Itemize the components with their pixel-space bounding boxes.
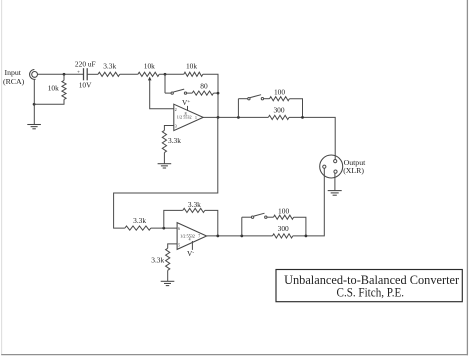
svg-text:100: 100 <box>278 206 289 215</box>
node: top feedback junction <box>164 73 167 76</box>
connector J2 XLR output <box>320 155 343 178</box>
svg-text:10k: 10k <box>186 61 197 70</box>
svg-text:(XLR): (XLR) <box>343 166 364 175</box>
switch SW1 <box>165 89 192 94</box>
VR1 wiper arrow <box>148 77 152 81</box>
resistor R9 3.3k (inverter input) <box>125 226 151 230</box>
wire: C1 to R2 <box>87 73 98 75</box>
wire: RCA sleeve down to ground <box>33 79 35 124</box>
svg-text:300: 300 <box>273 105 284 114</box>
resistor R8 300 (upper series) <box>268 115 289 119</box>
wire: U1 pin3 to R6 <box>164 126 173 131</box>
svg-text:10k: 10k <box>48 84 59 93</box>
op-amp U2 (1/2 5532) <box>177 223 207 250</box>
node: upper net left <box>237 116 240 119</box>
node: input junction <box>63 73 66 76</box>
capacitor C1 220uF <box>84 68 88 80</box>
ground (input) <box>27 125 41 129</box>
potentiometer VR1 10k <box>138 72 159 76</box>
wire: R13 to XLR pin3 <box>293 168 325 236</box>
svg-text:10k: 10k <box>144 61 155 70</box>
wire: R11 to ground <box>167 270 169 281</box>
ground (U1 R6) <box>158 164 172 168</box>
svg-text:2: 2 <box>175 108 177 112</box>
title block <box>276 270 462 302</box>
resistor R2 3.3k (series) <box>98 72 120 76</box>
resistor R6 3.3k (U1 + input to gnd) <box>162 130 166 152</box>
wire: R4 right down to output node <box>203 74 218 117</box>
svg-text:300: 300 <box>278 224 289 233</box>
node: upper net right <box>301 116 304 119</box>
svg-text:1/2 5532: 1/2 5532 <box>180 234 195 239</box>
node: sleeve junction <box>33 103 36 106</box>
V+ supply label U1 <box>187 106 189 111</box>
wire: up to SW3 <box>241 217 243 236</box>
switch SW2 <box>238 95 269 100</box>
svg-text:V+: V+ <box>182 98 190 107</box>
resistor R12 100 (lower switched) <box>273 215 293 219</box>
node: U2 output <box>216 235 219 238</box>
wire: U1 out down/left to R9 <box>114 117 218 228</box>
wire: junction down to SW1 <box>164 74 166 93</box>
wire: R7 to right vertical <box>289 99 302 118</box>
svg-text:3.3k: 3.3k <box>168 136 181 145</box>
V- supply label U2 <box>191 241 193 250</box>
wire: R10 down to U2 output <box>205 210 218 236</box>
wire: R6 to ground <box>163 153 165 164</box>
resistor R1 10k (input shunt) <box>62 80 66 99</box>
svg-text:+: + <box>77 69 80 75</box>
resistor R10 3.3k (U2 feedback) <box>164 210 183 228</box>
svg-text:8: 8 <box>185 112 187 116</box>
wire: R9 to U2 pin6 <box>151 227 177 229</box>
wire: VR1 to R4 <box>159 73 184 75</box>
wire: U2 output line <box>207 235 273 237</box>
op-amp U1 (1/2 5532) <box>174 104 203 130</box>
node: 80 branch junction <box>217 92 220 95</box>
switch SW3 <box>242 213 274 218</box>
wire: R12 to right vertical <box>294 217 306 236</box>
svg-text:3.3k: 3.3k <box>103 61 116 70</box>
ground (XLR) <box>328 191 342 196</box>
border frame (bottom) <box>1 354 468 356</box>
svg-text:7: 7 <box>198 235 200 239</box>
svg-text:3.3k: 3.3k <box>133 216 146 225</box>
border frame (right) <box>466 0 468 355</box>
wire: U2 pin5 to R11 <box>168 244 177 248</box>
node: U1 output <box>217 116 220 119</box>
wire: R2 to VR1 <box>120 73 138 75</box>
resistor R7 100 (upper switched) <box>270 97 290 101</box>
wire: XLR pin1 to ground <box>334 173 336 190</box>
resistor R11 3.3k (U2 + input to gnd) <box>166 248 170 270</box>
wire: RCA to C1 <box>38 73 84 75</box>
resistor R5 80 <box>192 91 213 95</box>
svg-text:5: 5 <box>178 243 180 247</box>
svg-text:1: 1 <box>195 116 197 120</box>
svg-text:3.3k: 3.3k <box>151 255 164 264</box>
node: lower net right <box>305 235 308 238</box>
wire: R5 to vertical <box>214 92 219 94</box>
border frame (left) <box>1 0 3 355</box>
ground (U2 R11) <box>161 281 175 285</box>
svg-text:V-: V- <box>187 249 194 258</box>
svg-text:80: 80 <box>200 82 208 91</box>
svg-text:4: 4 <box>189 237 191 241</box>
node: U2 inverting input <box>162 227 165 230</box>
wire: wiper to U1 pin2 <box>150 80 174 109</box>
resistor R13 300 (lower series) <box>273 234 293 238</box>
wire: junction down to R1 <box>63 74 65 80</box>
svg-text:3: 3 <box>175 125 177 129</box>
wire: up to SW2 <box>237 99 239 118</box>
wire: U1 output line <box>203 116 268 118</box>
svg-text:Input: Input <box>5 68 22 77</box>
node: lower net left <box>240 235 243 238</box>
svg-text:220 uF: 220 uF <box>75 60 96 69</box>
svg-text:6: 6 <box>178 227 180 231</box>
svg-text:10V: 10V <box>79 80 92 89</box>
resistor R4 10k (feedback) <box>184 72 203 76</box>
wire: R8 to XLR pin2 <box>289 117 335 159</box>
svg-text:3.3k: 3.3k <box>188 200 201 209</box>
svg-text:(RCA): (RCA) <box>3 77 25 86</box>
svg-text:100: 100 <box>274 87 285 96</box>
svg-text:C.S. Fitch, P.E.: C.S. Fitch, P.E. <box>337 285 405 299</box>
connector J1 RCA input <box>30 70 38 80</box>
wire: R1 bottom to RCA sleeve <box>34 99 64 104</box>
